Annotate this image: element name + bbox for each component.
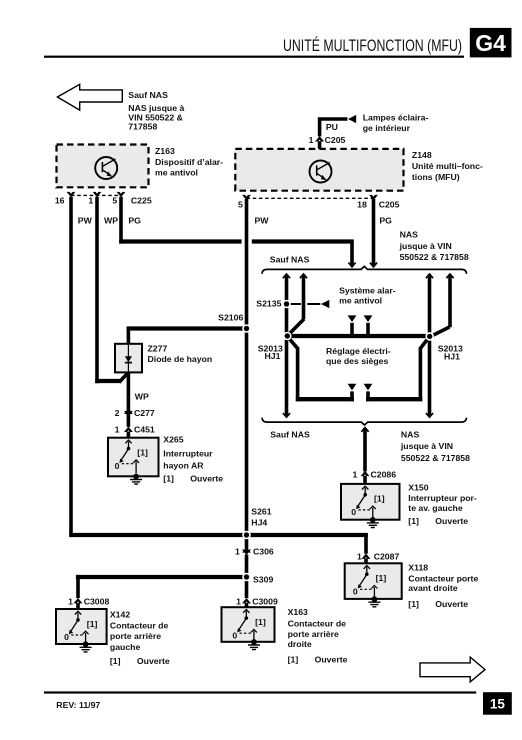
connector C225 pin 16 <box>67 192 74 197</box>
svg-text:UNITÉ MULTIFONCTION (MFU): UNITÉ MULTIFONCTION (MFU) <box>283 36 462 55</box>
svg-text:G4: G4 <box>475 30 506 56</box>
connector C306 on central wire <box>243 548 250 553</box>
svg-text:Contacteur de: Contacteur de <box>110 621 169 631</box>
bottom options brace <box>262 418 467 425</box>
svg-text:C306: C306 <box>253 547 274 557</box>
svg-text:droite: droite <box>288 639 312 649</box>
connector C225 pin 5 <box>117 192 124 197</box>
svg-text:X150: X150 <box>408 482 428 492</box>
svg-text:1: 1 <box>357 552 362 562</box>
ground <box>80 641 92 652</box>
svg-text:550522 & 717858: 550522 & 717858 <box>400 252 469 262</box>
svg-text:Ouverte: Ouverte <box>435 599 468 609</box>
svg-text:Ouverte: Ouverte <box>315 654 348 664</box>
svg-text:Unité multi–fonc-: Unité multi–fonc- <box>412 161 483 171</box>
wire B diagonal to S2013 <box>288 319 305 336</box>
wire WP pin1 down to diode junction <box>95 197 99 383</box>
svg-text:que des sièges: que des sièges <box>326 356 388 366</box>
node S2135 <box>282 300 291 309</box>
wire from bottom brace to C2086 <box>361 428 368 432</box>
svg-text:2: 2 <box>115 408 120 418</box>
svg-text:jusque à VIN: jusque à VIN <box>400 441 453 451</box>
svg-text:C451: C451 <box>134 425 155 435</box>
node S2135 stub to alarm system <box>288 303 301 305</box>
ground <box>368 596 380 607</box>
svg-text:15: 15 <box>490 696 506 711</box>
rear left door switch X142 <box>56 609 107 644</box>
node S2013 left <box>283 332 292 341</box>
svg-text:PU: PU <box>326 122 338 132</box>
node S261 <box>242 531 251 540</box>
svg-text:X142: X142 <box>110 610 130 620</box>
right continuation arrow <box>420 657 485 682</box>
svg-text:Contacteur porte: Contacteur porte <box>408 573 478 583</box>
svg-text:gauche: gauche <box>110 642 141 652</box>
svg-text:me antivol: me antivol <box>339 296 382 306</box>
connector C2087 <box>362 554 369 559</box>
svg-text:Ouverte: Ouverte <box>435 516 468 526</box>
connector C3008 <box>74 599 81 604</box>
wire PG continues right of crossing, down to options brace <box>252 239 354 243</box>
svg-text:WP: WP <box>104 216 118 226</box>
left continuation arrow <box>57 84 122 110</box>
svg-text:Contacteur de: Contacteur de <box>288 619 347 629</box>
svg-text:Z277: Z277 <box>148 343 168 353</box>
svg-text:PW: PW <box>78 216 93 226</box>
svg-text:S309: S309 <box>253 575 273 585</box>
svg-text:PG: PG <box>128 216 141 226</box>
svg-text:1: 1 <box>309 135 314 145</box>
svg-text:Réglage électri-: Réglage électri- <box>326 346 391 356</box>
svg-text:HJ1: HJ1 <box>265 351 281 361</box>
to-lamps arrowhead <box>348 115 356 123</box>
connector C225 dashed link <box>71 194 121 196</box>
svg-text:Interrupteur por-: Interrupteur por- <box>408 493 477 503</box>
svg-text:C205: C205 <box>379 200 400 210</box>
svg-text:NAS: NAS <box>401 429 420 439</box>
svg-text:porte arrière: porte arrière <box>110 631 161 641</box>
connector C205 pin 18 <box>370 195 377 200</box>
svg-text:Ouverte: Ouverte <box>137 656 170 666</box>
svg-text:[1]: [1] <box>163 474 174 484</box>
stub to alarm system left <box>350 323 354 336</box>
page tab G4 <box>470 28 512 58</box>
svg-text:X163: X163 <box>288 607 308 617</box>
svg-text:PW: PW <box>255 215 270 225</box>
svg-text:Système alar-: Système alar- <box>339 285 396 295</box>
svg-text:WP: WP <box>135 392 149 402</box>
lower seat-adjust loop right <box>420 337 429 348</box>
svg-text:Ouverte: Ouverte <box>190 474 223 484</box>
svg-text:C205: C205 <box>325 135 346 145</box>
wire S2013 cross link <box>285 334 432 338</box>
svg-text:Dispositif d’alar-: Dispositif d’alar- <box>155 157 223 167</box>
lower seat-adjust loop left <box>288 337 298 348</box>
wire B left option branch <box>300 274 307 278</box>
front right door switch X118 <box>345 563 402 599</box>
svg-text:Diode de hayon: Diode de hayon <box>148 354 213 364</box>
svg-text:ge intérieur: ge intérieur <box>363 123 411 133</box>
svg-text:NAS: NAS <box>400 229 419 239</box>
svg-text:C3008: C3008 <box>84 596 110 606</box>
header rule <box>44 56 464 58</box>
wire PW pin16 down and to S261 <box>69 197 73 535</box>
connector C205 pin 1 <box>316 137 323 142</box>
svg-text:C225: C225 <box>131 195 152 205</box>
svg-text:[1]: [1] <box>408 516 419 526</box>
svg-text:1: 1 <box>353 470 358 480</box>
svg-text:PG: PG <box>379 215 392 225</box>
node S309 <box>242 573 251 582</box>
rear right door switch X163 <box>222 607 275 642</box>
connector C451 <box>125 427 132 432</box>
node S2106 link wire to diode <box>127 326 247 330</box>
connector C3009 <box>243 599 250 604</box>
alarm unit Z163 <box>57 145 149 188</box>
svg-text:18: 18 <box>357 200 367 210</box>
node S2106 <box>242 324 251 333</box>
svg-text:Sauf NAS: Sauf NAS <box>128 90 168 100</box>
svg-text:[1]: [1] <box>110 656 121 666</box>
wire PW pin5 central down to S261 <box>245 199 249 549</box>
connector C277 <box>125 409 132 414</box>
svg-text:16: 16 <box>55 195 65 205</box>
svg-text:S2106: S2106 <box>218 313 243 323</box>
svg-text:porte arrière: porte arrière <box>288 629 339 639</box>
svg-text:1: 1 <box>236 596 241 606</box>
svg-text:tions (MFU): tions (MFU) <box>412 172 460 182</box>
svg-text:S2135: S2135 <box>256 298 281 308</box>
svg-text:Z163: Z163 <box>155 146 175 156</box>
svg-text:C2086: C2086 <box>371 470 397 480</box>
svg-text:me antivol: me antivol <box>155 167 198 177</box>
svg-text:Lampes éclaira-: Lampes éclaira- <box>363 113 429 123</box>
wire PU to interior lamps <box>318 141 322 149</box>
node S2013 right <box>425 332 434 341</box>
svg-text:717858: 717858 <box>128 122 157 132</box>
tailgate switch X265 <box>108 438 159 477</box>
connector C2086 <box>361 471 368 476</box>
svg-text:5: 5 <box>238 200 243 210</box>
svg-text:Z148: Z148 <box>412 150 432 160</box>
wire branch S261 to X118 <box>364 533 368 554</box>
svg-text:hayon AR: hayon AR <box>163 461 204 471</box>
svg-text:Sauf NAS: Sauf NAS <box>270 429 310 439</box>
svg-text:1: 1 <box>115 425 120 435</box>
svg-text:1: 1 <box>88 195 93 205</box>
svg-text:[1]: [1] <box>288 654 299 664</box>
wire A left option branch <box>283 274 290 278</box>
svg-text:[1]: [1] <box>408 599 419 609</box>
wire diagonal into diode output <box>119 373 128 383</box>
wire WP below diode <box>127 372 131 427</box>
front left door switch X150 <box>341 484 400 520</box>
svg-text:REV: 11/97: REV: 11/97 <box>56 700 100 710</box>
MFU unit Z148 <box>235 149 403 191</box>
wire D right option branch <box>446 274 453 278</box>
connector C205 pin 5 <box>243 195 250 200</box>
wire PG pin5 down then right <box>119 197 123 244</box>
stub to alarm system right <box>366 323 370 336</box>
svg-text:C2087: C2087 <box>374 552 400 562</box>
svg-text:X265: X265 <box>163 435 183 445</box>
svg-text:avant droite: avant droite <box>408 583 457 593</box>
svg-text:S261: S261 <box>251 506 271 516</box>
svg-text:HJ1: HJ1 <box>444 351 460 361</box>
wire C right option branch <box>426 274 433 278</box>
ground <box>130 474 142 485</box>
connector C205 dashed link <box>247 197 374 199</box>
connector C225 pin 1 <box>93 192 100 197</box>
footer rule <box>44 691 476 693</box>
svg-text:te av. gauche: te av. gauche <box>408 503 463 513</box>
svg-text:C277: C277 <box>134 408 155 418</box>
ground <box>248 639 260 650</box>
tailgate diode Z277 <box>115 344 142 373</box>
svg-text:1: 1 <box>235 547 240 557</box>
svg-text:Sauf NAS: Sauf NAS <box>270 255 310 265</box>
page number 15 <box>483 692 512 715</box>
svg-text:X118: X118 <box>408 562 428 572</box>
wire D diagonal to S2013 <box>430 327 449 337</box>
svg-text:jusque à VIN: jusque à VIN <box>399 241 452 251</box>
svg-text:C3009: C3009 <box>252 596 278 606</box>
svg-text:Interrupteur: Interrupteur <box>163 449 213 459</box>
wire branch S309 to X142 <box>76 575 248 579</box>
svg-text:1: 1 <box>68 596 73 606</box>
svg-text:5: 5 <box>112 195 117 205</box>
svg-text:HJ4: HJ4 <box>251 518 267 528</box>
svg-text:550522 & 717858: 550522 & 717858 <box>401 453 470 463</box>
ground <box>367 517 379 528</box>
top options brace <box>262 266 467 273</box>
wire PG pin18 down to options brace <box>372 199 376 265</box>
